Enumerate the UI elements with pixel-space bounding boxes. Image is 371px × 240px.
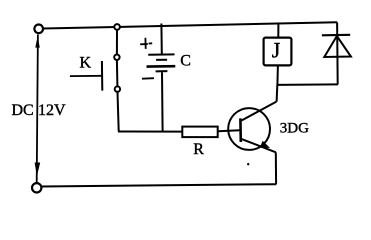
wire relay J bottom lead [276, 65, 279, 85]
wire top rail [43, 22, 337, 28]
arrowhead up (toward TP1) [35, 36, 40, 47]
wire base row (switch to resistor) [118, 131, 183, 133]
battery C plate 4 (short) [156, 70, 168, 72]
svg-text:R: R [193, 141, 204, 158]
relay J coil box [264, 38, 292, 66]
wire node row (relay node to diode) [277, 83, 338, 86]
svg-text:12V: 12V [38, 102, 66, 119]
battery C plate 1 (long) [148, 53, 174, 55]
wire bottom rail [42, 184, 277, 186]
svg-text:J: J [272, 38, 281, 63]
resistor R body [182, 127, 217, 138]
diode D1 cathode bar [322, 34, 350, 37]
transistor Q1 3DG circle [228, 108, 270, 150]
wire lower contact down to base row [118, 92, 119, 131]
transistor base bar [239, 118, 242, 142]
wire junction to switch upper contact [116, 30, 118, 55]
svg-text:C: C [180, 52, 191, 69]
switch K actuator stem [70, 75, 102, 77]
svg-text:3DG: 3DG [280, 121, 309, 137]
diode D1 triangle [324, 36, 351, 57]
battery C plate 3 (long) [147, 65, 176, 68]
wire resistor to transistor base [218, 130, 241, 131]
polarity - sign [142, 77, 154, 80]
switch K lower contact [115, 86, 120, 91]
svg-text:K: K [80, 54, 92, 71]
wire battery C bottom lead [161, 72, 164, 131]
polarity + sign [140, 43, 148, 45]
arrowhead down (toward TP2) [35, 163, 41, 177]
terminal TP2 (bottom-left supply terminal) [32, 183, 41, 192]
wire relay J top lead [277, 24, 279, 38]
wire emitter vertical to bottom rail [275, 152, 277, 184]
DC 12V measurement arrow shaft [37, 35, 38, 184]
switch K actuator bar [101, 61, 103, 91]
wire collector vertical to node [276, 85, 279, 102]
wire diode D1 vertical lead [336, 22, 339, 84]
svg-text:DC: DC [12, 102, 34, 119]
emitter arrowhead [260, 141, 270, 148]
terminal TP1 (top-left supply terminal) [34, 25, 43, 34]
transistor collector diagonal [241, 102, 276, 121]
stray ink dot [247, 163, 249, 165]
switch K upper contact [114, 55, 119, 60]
transistor emitter diagonal [241, 139, 275, 152]
switch K blade [116, 60, 119, 87]
battery C plate 2 (short) [156, 59, 167, 61]
wire battery C top lead [160, 24, 162, 54]
node junction on top rail (switch branch) [114, 24, 120, 30]
